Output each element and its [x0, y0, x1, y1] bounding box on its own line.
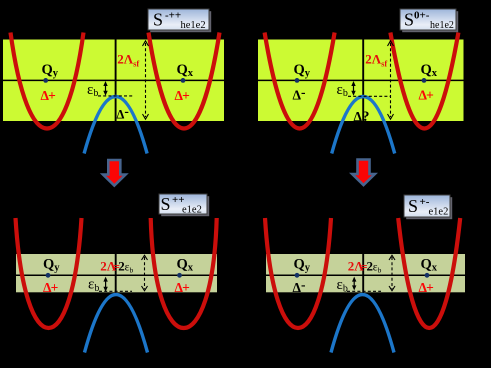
blue inverted parabola: [85, 295, 148, 353]
dashed line at blue apex: [347, 290, 381, 292]
red parabola right: [390, 33, 458, 129]
svg-text:he1e2: he1e2: [181, 20, 206, 31]
epsilon_b double arrow: [352, 277, 356, 291]
red parabola left: [265, 218, 331, 328]
band (spin-full gap band): [3, 40, 224, 122]
blue inverted parabola: [84, 97, 147, 154]
label box S-++ he1e2: [148, 9, 211, 32]
svg-text:he1e2: he1e2: [430, 20, 454, 31]
label box S+- e1e2: [404, 195, 452, 219]
Q_y dot: [295, 78, 300, 83]
blue inverted parabola: [332, 97, 395, 154]
axis: [266, 274, 465, 276]
label box S++ e1e2: [159, 194, 209, 216]
svg-text:S: S: [153, 10, 163, 30]
blue inverted parabola: [331, 295, 394, 353]
svg-text:0+-: 0+-: [414, 10, 430, 22]
dashed vertical double arrow: [389, 255, 395, 290]
axis (horizontal energy axis): [3, 79, 224, 81]
svg-text:Δ+: Δ+: [43, 280, 58, 295]
svg-text:Δ+: Δ+: [175, 280, 190, 295]
svg-text:S: S: [408, 196, 418, 216]
center vertical line: [362, 254, 364, 293]
svg-text:S: S: [404, 10, 414, 30]
center vertical line: [115, 40, 117, 122]
label box S0+- he1e2: [400, 9, 458, 32]
dashed vertical double arrow: [142, 255, 148, 290]
dashed vertical double arrow 2Lambda: [143, 41, 149, 119]
svg-text:Δ+: Δ+: [419, 280, 434, 295]
Q_x dot: [181, 78, 186, 83]
svg-text:S: S: [161, 194, 171, 214]
Q_y dot: [43, 78, 48, 83]
Q_y dot: [46, 273, 51, 278]
svg-text:-++: -++: [165, 10, 181, 22]
epsilon_b double arrow: [103, 81, 107, 96]
band: [16, 254, 217, 292]
band: [266, 254, 465, 292]
dashed line at blue apex: [99, 290, 132, 292]
red block arrow right: [352, 160, 375, 186]
axis: [258, 79, 464, 81]
Q_x dot: [422, 78, 427, 83]
center vertical line: [362, 40, 364, 122]
center vertical line: [115, 254, 117, 293]
dashed line at blue apex: [98, 95, 133, 97]
Q_x dot: [177, 273, 182, 278]
red parabola right: [398, 218, 460, 328]
svg-text:e1e2: e1e2: [429, 207, 449, 218]
red parabola left: [265, 33, 335, 129]
Q_y dot: [295, 273, 300, 278]
band: [258, 40, 464, 122]
red block arrow left: [103, 160, 126, 186]
svg-text:Δ?: Δ?: [354, 109, 370, 125]
red parabola left: [16, 218, 82, 328]
Q_x dot: [425, 273, 430, 278]
red parabola right (Q_x valley): [149, 33, 220, 129]
epsilon_b double arrow: [103, 277, 107, 292]
epsilon_b double arrow: [351, 81, 355, 96]
dashed vertical double arrow: [388, 41, 394, 119]
svg-text:Δ+: Δ+: [175, 88, 190, 103]
svg-text:e1e2: e1e2: [182, 205, 202, 216]
svg-text:Δ+: Δ+: [419, 88, 434, 103]
dashed line at blue apex: [348, 95, 390, 97]
red parabola left (Q_y valley): [11, 33, 84, 129]
svg-text:Δ+: Δ+: [41, 88, 56, 103]
axis: [16, 274, 217, 276]
red parabola right: [151, 218, 217, 328]
